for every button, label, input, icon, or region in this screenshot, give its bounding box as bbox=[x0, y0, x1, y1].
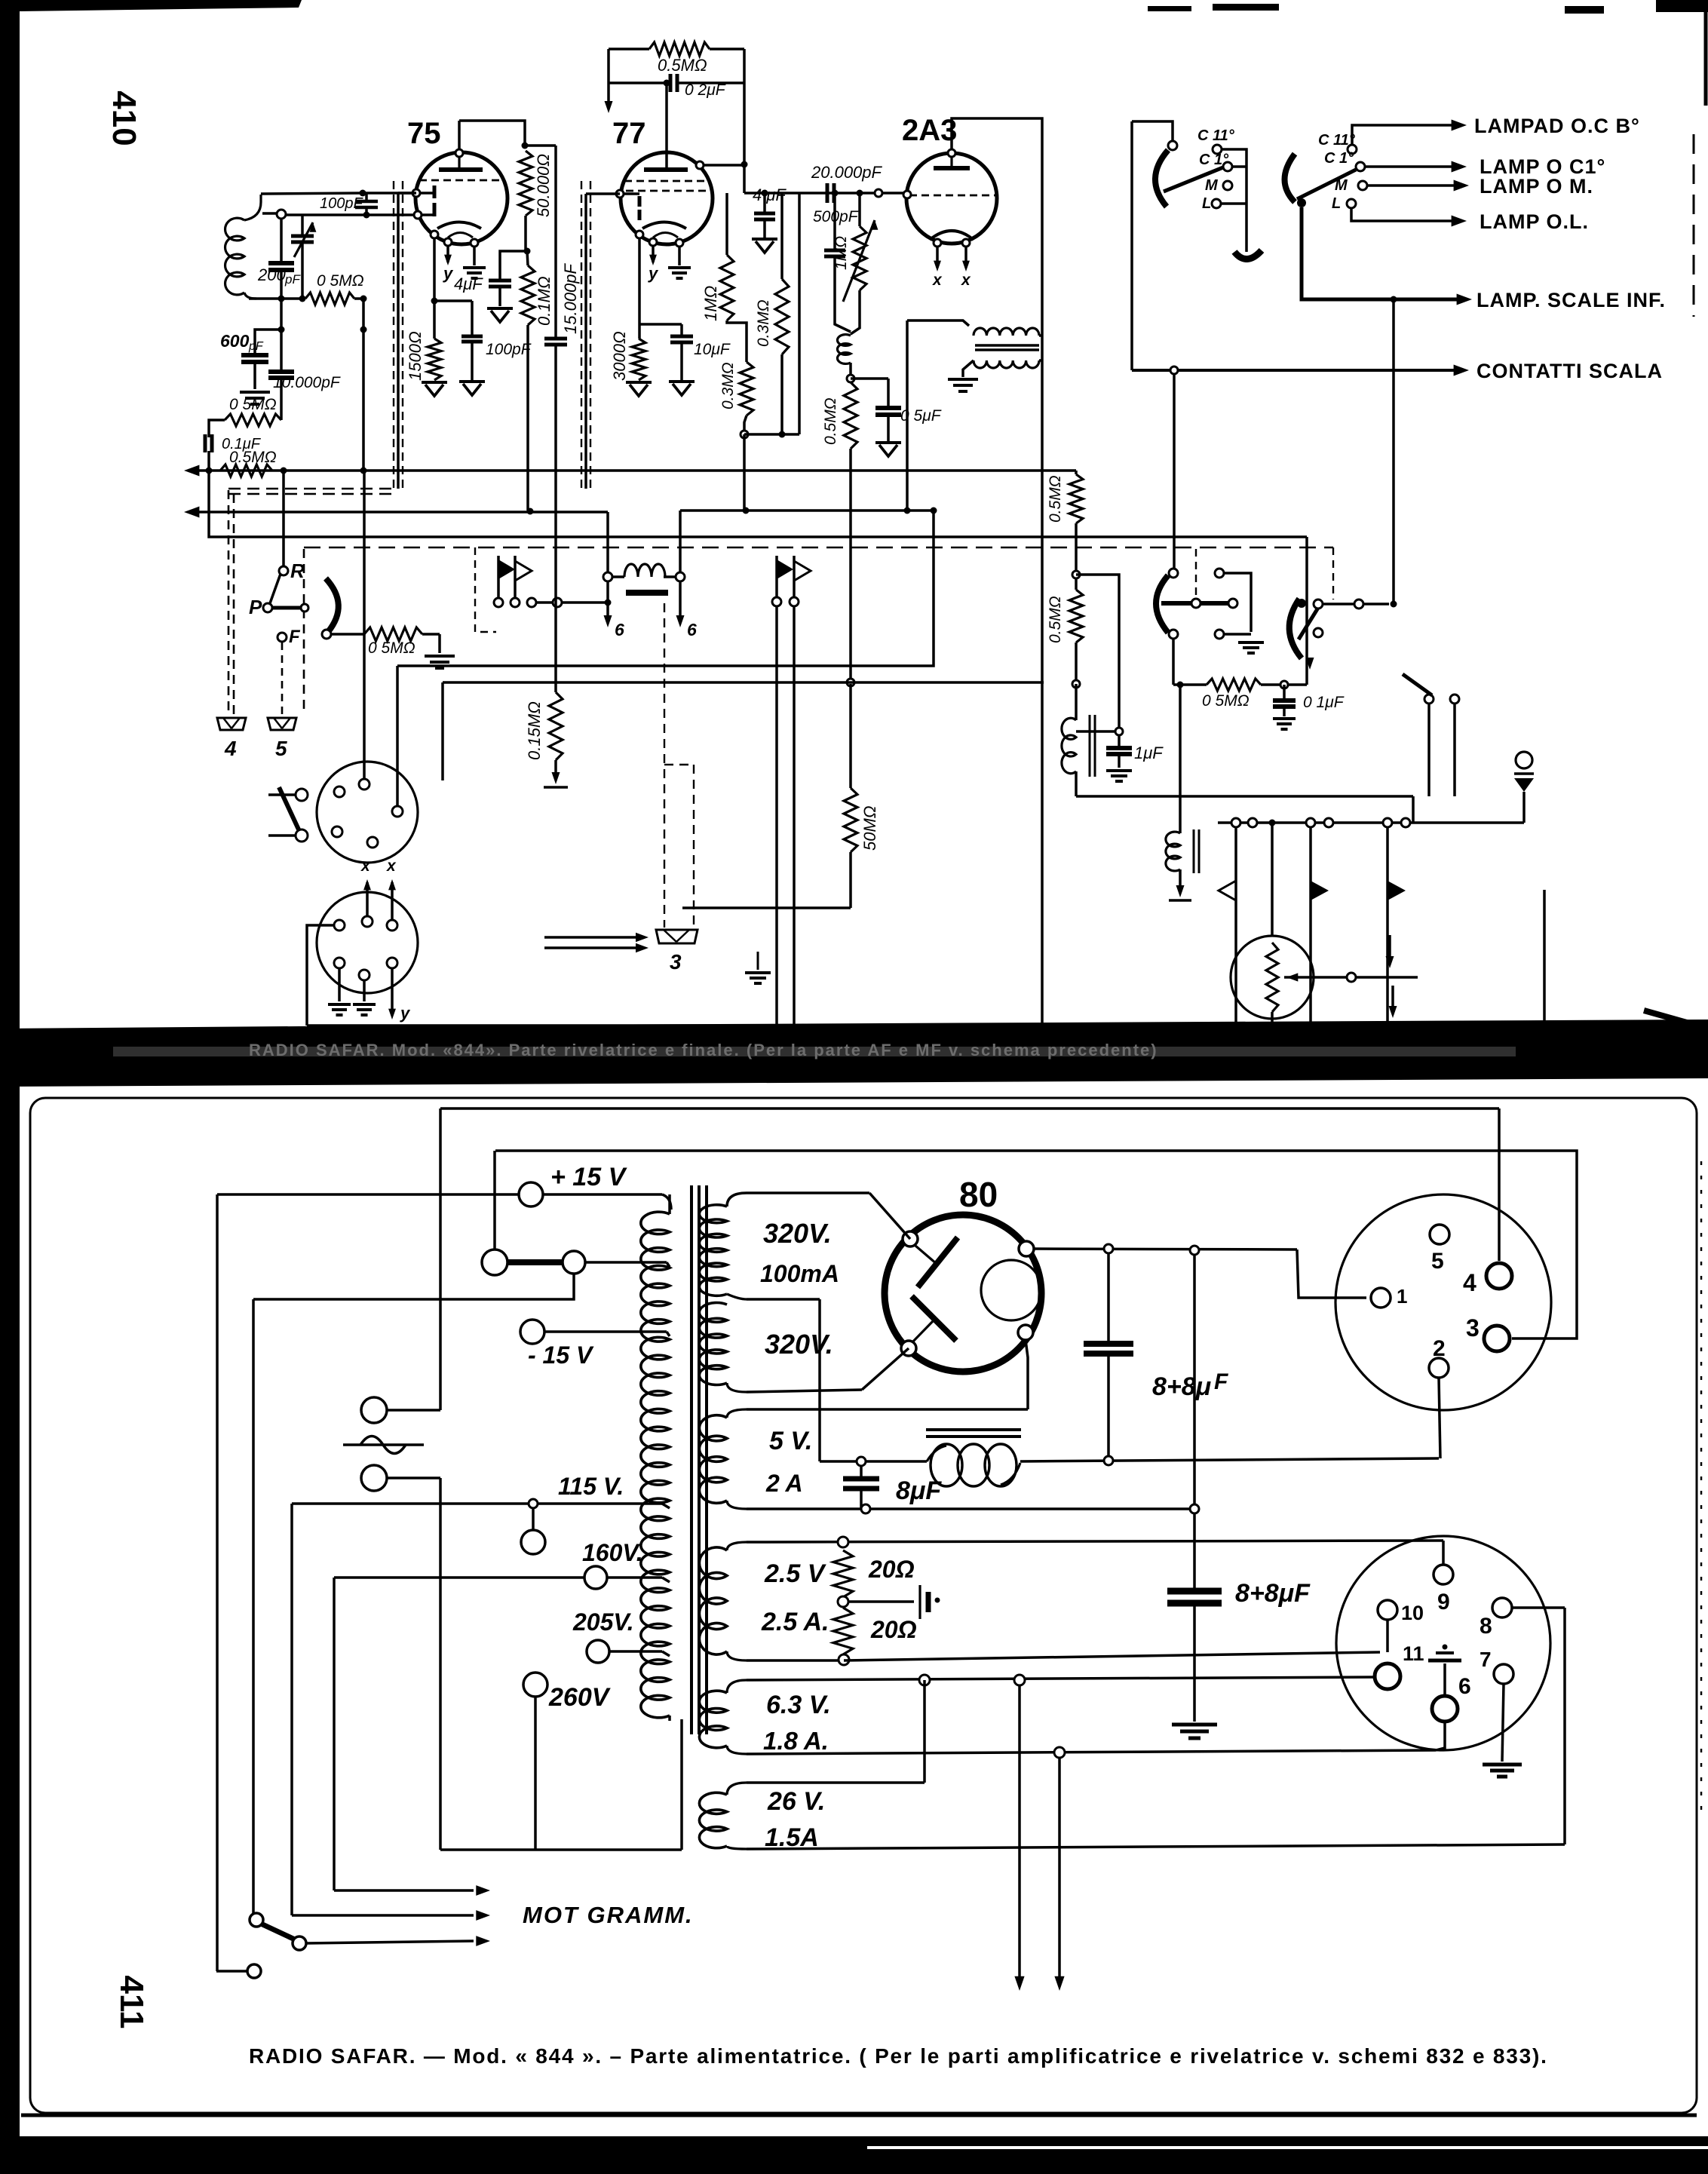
tube 2A3 plate bbox=[934, 166, 970, 170]
contatti line bbox=[1132, 369, 1459, 372]
dashed shield 75 bbox=[393, 181, 394, 490]
trimmer capacitor bbox=[301, 216, 304, 235]
bus line 2 right bbox=[680, 509, 934, 512]
lamp line 3 bbox=[1367, 184, 1458, 187]
tube 80 envelope bbox=[885, 1215, 1041, 1372]
capacitor 8uF bbox=[860, 1466, 863, 1478]
flags right B bbox=[1309, 827, 1312, 1026]
socket A switch bbox=[296, 789, 308, 801]
wire 160V bbox=[334, 1576, 584, 1579]
terminal 260V bbox=[523, 1673, 547, 1697]
svg-text:4μF: 4μF bbox=[454, 274, 483, 293]
wire 75 cathode bbox=[433, 238, 436, 301]
wire tuned row bbox=[249, 297, 305, 300]
resistor 0.5M r1 bbox=[1075, 471, 1078, 474]
tube 77 heater y bbox=[652, 246, 655, 262]
resistor 20ohm upper bbox=[838, 1537, 848, 1547]
wire line A bbox=[440, 1107, 1499, 1110]
wire coil tap bbox=[262, 212, 278, 215]
pin 6 chassis bbox=[1443, 1663, 1446, 1696]
svg-text:200: 200 bbox=[257, 265, 286, 284]
wire line B bbox=[495, 1151, 1577, 1338]
resistor 0.15M bbox=[554, 537, 557, 692]
tube 80 plate 1 bbox=[918, 1237, 958, 1287]
dashed drop right bbox=[1332, 547, 1334, 599]
terminal 3 bbox=[656, 930, 698, 943]
svg-text:10μF: 10μF bbox=[694, 341, 731, 358]
tube 77 screen dash bbox=[624, 180, 709, 182]
page edge top marks bbox=[1148, 6, 1191, 11]
svg-text:20Ω: 20Ω bbox=[868, 1556, 915, 1583]
dashed link switch bbox=[1195, 549, 1197, 599]
capacitor 0.1uF det bbox=[204, 434, 207, 452]
tube 75 cathode bbox=[437, 222, 481, 229]
svg-text:100mA: 100mA bbox=[760, 1260, 839, 1287]
svg-text:0.15MΩ: 0.15MΩ bbox=[525, 701, 544, 760]
svg-text:y: y bbox=[400, 1004, 411, 1023]
pot arc bbox=[326, 578, 339, 632]
page edge top left bbox=[20, 0, 302, 11]
capacitor 8+8 first bbox=[1107, 1253, 1110, 1342]
wire diode row upper bbox=[363, 192, 416, 195]
dashed link upper bbox=[228, 488, 397, 490]
resistor 0.5M r2 bbox=[1069, 590, 1083, 642]
svg-text:6: 6 bbox=[615, 620, 624, 639]
capacitor 10.000pF bbox=[280, 299, 283, 371]
svg-text:0 1μF: 0 1μF bbox=[1303, 694, 1345, 711]
secondary 5V bbox=[727, 1409, 747, 1418]
capacitor 10uF bbox=[680, 324, 683, 336]
wire pin4 drop bbox=[1498, 1108, 1501, 1261]
wire bundle v2 bbox=[252, 1299, 255, 1914]
svg-text:411: 411 bbox=[113, 1976, 150, 2029]
svg-text:LAMP O.L.: LAMP O.L. bbox=[1480, 210, 1589, 233]
capacitor 20.000pF bbox=[826, 183, 829, 203]
svg-text:+ 15 V: + 15 V bbox=[550, 1163, 628, 1191]
socket B x arrows bbox=[366, 882, 369, 916]
arrows to t3 bbox=[544, 936, 639, 939]
wire 77 cathode bbox=[638, 238, 641, 339]
transformer primary bbox=[641, 1212, 670, 1718]
svg-text:2.5 A.: 2.5 A. bbox=[761, 1608, 829, 1636]
resistor 0.5M ant bbox=[305, 293, 354, 305]
wire down arrow 1 bbox=[1018, 1685, 1021, 1977]
svg-text:3000Ω: 3000Ω bbox=[610, 331, 629, 381]
capacitor 8+8 second bbox=[1193, 1255, 1196, 1590]
AC symbol bbox=[343, 1443, 424, 1446]
svg-text:100pF: 100pF bbox=[486, 341, 532, 358]
capacitor 200pF bbox=[280, 218, 283, 262]
svg-text:7: 7 bbox=[1480, 1648, 1492, 1671]
wire y1056 bbox=[1076, 795, 1413, 798]
arrow out up bbox=[1388, 935, 1391, 959]
terminal 115V bbox=[532, 1508, 535, 1529]
capacitor 100pF grid bbox=[365, 193, 368, 201]
wire plug bottom down bbox=[439, 1478, 442, 1850]
wire y905 bbox=[443, 681, 1044, 684]
page edge right dash bbox=[1693, 134, 1695, 317]
resistor 50.000 bbox=[519, 151, 532, 216]
resistor 0.5M bus bbox=[220, 465, 272, 477]
pin 2 bbox=[1429, 1358, 1449, 1378]
transformer output core bbox=[975, 344, 1039, 347]
svg-text:P: P bbox=[249, 596, 262, 618]
tube 75 heater gnd bbox=[473, 247, 476, 265]
svg-text:0.5MΩ: 0.5MΩ bbox=[1047, 596, 1064, 643]
secondary 2.5V bbox=[727, 1542, 747, 1550]
svg-text:pF: pF bbox=[284, 272, 301, 287]
transformer core bbox=[690, 1185, 693, 1734]
svg-text:LAMPAD O.C B°: LAMPAD O.C B° bbox=[1474, 115, 1640, 137]
arrow mot 2 bbox=[292, 1914, 474, 1917]
wire bundle v3 bbox=[290, 1504, 293, 1915]
transformer output secondary bbox=[974, 360, 1039, 368]
terminal +15V bbox=[519, 1182, 543, 1207]
wire 50M chain bbox=[844, 788, 857, 852]
resistor 0.5M pot bbox=[331, 633, 364, 636]
switch mid 2 bbox=[1289, 599, 1302, 658]
svg-text:1500Ω: 1500Ω bbox=[406, 331, 425, 381]
svg-text:320V.: 320V. bbox=[765, 1329, 833, 1360]
plug terminal bottom bbox=[361, 1465, 387, 1491]
svg-text:100pF: 100pF bbox=[320, 195, 363, 212]
wire down arrow 2 bbox=[1058, 1758, 1061, 1977]
capacitor 500pF bbox=[833, 193, 836, 250]
svg-text:8: 8 bbox=[1480, 1614, 1492, 1639]
svg-text:0 5MΩ: 0 5MΩ bbox=[368, 639, 416, 657]
resistor 20ohm lower bbox=[838, 1596, 848, 1607]
pin 3 bbox=[1484, 1326, 1510, 1351]
svg-text:3: 3 bbox=[670, 950, 682, 974]
field coil bbox=[603, 572, 612, 581]
pin 8 bbox=[1492, 1598, 1512, 1617]
wire diode row lower bbox=[281, 213, 418, 216]
svg-text:260V: 260V bbox=[548, 1683, 612, 1712]
svg-text:R: R bbox=[290, 560, 305, 582]
wire socket A right bbox=[396, 666, 399, 806]
wire 75 out bbox=[434, 299, 472, 302]
tube 80 pins bbox=[903, 1231, 918, 1246]
secondary 26V bbox=[727, 1783, 747, 1795]
bus line 1 AVC bbox=[193, 469, 1076, 472]
svg-text:0.5MΩ: 0.5MΩ bbox=[1047, 475, 1064, 523]
switch S0 bbox=[1132, 121, 1173, 141]
filter choke bbox=[926, 1428, 1021, 1431]
resistor 0.5M fb bbox=[609, 48, 649, 51]
svg-text:4: 4 bbox=[224, 737, 237, 760]
tube 77 envelope bbox=[621, 152, 713, 244]
svg-text:9: 9 bbox=[1437, 1590, 1450, 1614]
tube 77 screen lead bbox=[696, 161, 704, 169]
dashed shield 77 bbox=[581, 181, 582, 489]
bus line 2 bbox=[193, 511, 608, 514]
svg-text:CONTATTI SCALA: CONTATTI SCALA bbox=[1476, 360, 1663, 382]
dashed drop t4 bbox=[228, 490, 230, 716]
svg-text:0.3MΩ: 0.3MΩ bbox=[719, 362, 737, 409]
wire 4uF node riser bbox=[798, 193, 801, 434]
switch mid 1 bbox=[1169, 569, 1178, 578]
wire 75 grid drop bbox=[398, 192, 416, 195]
svg-text:M: M bbox=[1335, 177, 1348, 194]
svg-text:10: 10 bbox=[1401, 1602, 1424, 1624]
coil 2 right bbox=[1179, 685, 1182, 833]
terminal 5 bbox=[268, 718, 296, 730]
wire 6.3V bottom circle bbox=[1054, 1747, 1065, 1758]
tube 75 grid bbox=[433, 186, 437, 198]
capacitor 15.000pF bbox=[554, 146, 557, 338]
tube 2A3 grid dash bbox=[909, 195, 995, 197]
svg-text:50.000Ω: 50.000Ω bbox=[534, 154, 553, 217]
svg-text:1.8 A.: 1.8 A. bbox=[763, 1727, 829, 1755]
svg-text:11: 11 bbox=[1403, 1642, 1424, 1665]
tube 75 plate bbox=[439, 167, 483, 172]
svg-text:10.000pF: 10.000pF bbox=[273, 374, 341, 391]
resistor 0.1M bbox=[521, 265, 535, 325]
arrow out dn bbox=[1391, 986, 1394, 1009]
svg-text:75: 75 bbox=[407, 117, 441, 150]
svg-text:LAMP. SCALE INF.: LAMP. SCALE INF. bbox=[1476, 289, 1666, 311]
tube 75 envelope bbox=[416, 152, 507, 244]
dashed drop t5 bbox=[303, 549, 305, 715]
wire pin2 drop bbox=[1439, 1378, 1440, 1458]
svg-text:500pF: 500pF bbox=[813, 208, 859, 225]
wire fb right bbox=[743, 49, 746, 193]
flags right C bbox=[1386, 827, 1389, 1026]
tube 80 filament bbox=[981, 1260, 1041, 1320]
wire 320V to plate1 bbox=[869, 1193, 910, 1239]
socket 5pin bbox=[1335, 1194, 1551, 1410]
arrow mot 3 bbox=[306, 1941, 474, 1943]
switch S0 bus bbox=[1222, 149, 1247, 252]
svg-text:1: 1 bbox=[1397, 1285, 1407, 1308]
lamp scale line bbox=[1302, 207, 1467, 299]
svg-text:6.3 V.: 6.3 V. bbox=[766, 1691, 831, 1719]
svg-text:6: 6 bbox=[1458, 1674, 1471, 1699]
resistor 1M 77 bbox=[720, 255, 734, 320]
svg-text:320V.: 320V. bbox=[763, 1218, 832, 1249]
svg-text:y: y bbox=[648, 264, 659, 283]
svg-text:pF: pF bbox=[248, 340, 264, 353]
mains switch bbox=[250, 1913, 263, 1927]
transformer output primary bbox=[907, 320, 969, 326]
svg-text:3: 3 bbox=[1466, 1314, 1480, 1342]
transformer taps bbox=[667, 1262, 670, 1267]
terminal 205V bbox=[587, 1640, 609, 1663]
tube 77 heater gnd bbox=[678, 247, 681, 265]
svg-text:2: 2 bbox=[1433, 1336, 1446, 1361]
dashed drop t3 bbox=[664, 603, 665, 928]
svg-text:L: L bbox=[1202, 195, 1211, 212]
svg-text:0.5MΩ: 0.5MΩ bbox=[822, 397, 839, 445]
dashed link pickup bbox=[475, 547, 496, 632]
wire lamp-switch drop bbox=[1392, 299, 1395, 604]
IF coil bbox=[1075, 684, 1078, 720]
dashed link long bbox=[304, 547, 1333, 549]
socket B bbox=[317, 892, 418, 993]
capacitor 4uF cath bbox=[500, 251, 527, 280]
capacitor 0.2uF fb bbox=[609, 81, 670, 84]
wire 2.5V to pin10 bbox=[844, 1652, 1380, 1660]
wire field left bbox=[606, 512, 609, 572]
wire bundle v4 bbox=[333, 1578, 336, 1890]
plug terminal top bbox=[361, 1397, 387, 1423]
tube 2A3 fil arrows bbox=[936, 247, 939, 268]
svg-text:205V.: 205V. bbox=[572, 1608, 634, 1636]
arrow 6 right bbox=[679, 581, 682, 618]
wire branch 1uF bbox=[1076, 575, 1119, 728]
svg-text:L: L bbox=[1332, 195, 1341, 212]
svg-text:2.5 V: 2.5 V bbox=[764, 1559, 827, 1588]
capacitor 4uF 77 bbox=[763, 193, 766, 213]
svg-text:- 15 V: - 15 V bbox=[528, 1342, 594, 1369]
pickup flags 2 bbox=[775, 556, 778, 597]
wire 75 plate top bbox=[459, 121, 525, 146]
bottom band bbox=[0, 2136, 1708, 2174]
resistor 0.5M 2A3 bbox=[844, 382, 857, 449]
svg-text:C 11°: C 11° bbox=[1318, 132, 1356, 149]
svg-text:8+8μF: 8+8μF bbox=[1235, 1579, 1311, 1608]
switch S1 lamps bbox=[1297, 198, 1306, 207]
svg-text:160V.: 160V. bbox=[582, 1539, 643, 1566]
resistor 1M volume bbox=[853, 226, 866, 290]
wire 115V bbox=[292, 1502, 662, 1505]
socket B grounds bbox=[338, 968, 341, 1001]
dashed drop F bbox=[281, 642, 284, 715]
wire plate node bbox=[525, 144, 556, 147]
tube 2A3 envelope bbox=[906, 153, 997, 244]
volume pot bbox=[1231, 936, 1314, 1019]
wire bus3 drop bbox=[1305, 537, 1308, 685]
wire field right bbox=[679, 511, 682, 572]
svg-text:2A3: 2A3 bbox=[902, 114, 957, 147]
lamp line 1 bbox=[1352, 125, 1455, 145]
pot F terminal bbox=[278, 633, 287, 642]
svg-text:0.3MΩ: 0.3MΩ bbox=[755, 299, 772, 347]
svg-text:0 5MΩ: 0 5MΩ bbox=[229, 396, 277, 413]
terminal pair link bbox=[482, 1250, 507, 1275]
bottom rule bbox=[21, 2114, 1697, 2117]
wire contatti drop bbox=[1173, 370, 1176, 569]
switch small right bbox=[1424, 695, 1434, 704]
pin 7 ground bbox=[1502, 1684, 1504, 1762]
wire choke input bbox=[820, 1460, 927, 1463]
svg-text:0.1MΩ: 0.1MΩ bbox=[535, 276, 553, 326]
secondary 320V bbox=[699, 1205, 727, 1296]
svg-text:5 V.: 5 V. bbox=[769, 1427, 812, 1455]
capacitor 1uF bbox=[1076, 730, 1115, 733]
svg-text:15.000pF: 15.000pF bbox=[561, 262, 580, 334]
svg-text:600: 600 bbox=[220, 331, 250, 351]
band separator bbox=[0, 1020, 1708, 1087]
svg-text:8μF: 8μF bbox=[896, 1476, 942, 1505]
svg-text:x: x bbox=[932, 271, 943, 289]
svg-text:RADIO SAFAR. — Mod. « 844 ». –: RADIO SAFAR. — Mod. « 844 ». – Parte ali… bbox=[249, 2044, 1548, 2068]
svg-text:80: 80 bbox=[959, 1175, 998, 1214]
tube 77 grid bbox=[638, 196, 642, 207]
pin 11 bbox=[1375, 1663, 1400, 1689]
svg-text:8+8μ: 8+8μ bbox=[1152, 1372, 1212, 1401]
lamp line 4 bbox=[1351, 208, 1455, 221]
wire pin8 bbox=[1512, 1606, 1565, 1609]
svg-text:x: x bbox=[360, 857, 371, 875]
terminal -15V bbox=[520, 1320, 544, 1344]
svg-text:0 2μF: 0 2μF bbox=[685, 81, 726, 99]
svg-text:77: 77 bbox=[612, 117, 646, 150]
wire 77 grid drop bbox=[586, 192, 620, 195]
flags right A bbox=[1234, 827, 1237, 1026]
ground pot bbox=[438, 634, 441, 653]
svg-text:1MΩ: 1MΩ bbox=[701, 286, 720, 321]
svg-text:1μF: 1μF bbox=[1134, 744, 1164, 762]
arrow mot 1 bbox=[334, 1889, 474, 1892]
pin 9 bbox=[1434, 1565, 1453, 1584]
capacitor 600pF bbox=[255, 330, 281, 354]
wire fb left arrow bbox=[607, 49, 610, 102]
socket A bbox=[317, 762, 418, 863]
wire pair left bbox=[493, 1151, 496, 1250]
antenna coil L1 bbox=[244, 195, 261, 220]
tube 75 diode dash bbox=[419, 179, 504, 182]
capacitor 100pF cath bbox=[471, 301, 474, 336]
resistor 3000 bbox=[632, 339, 645, 380]
wire 2A3 plate bbox=[952, 118, 1042, 1026]
wire 26V riser bbox=[923, 1680, 926, 1783]
wire 320V to plate2 bbox=[862, 1348, 909, 1390]
phone jack bbox=[1516, 752, 1532, 768]
svg-text:0 5MΩ: 0 5MΩ bbox=[1202, 692, 1250, 710]
wire det down bbox=[362, 299, 365, 330]
resistor 0.5M h bbox=[1173, 683, 1207, 686]
svg-text:y: y bbox=[443, 264, 454, 283]
svg-text:x: x bbox=[961, 271, 971, 289]
svg-text:5: 5 bbox=[1431, 1249, 1444, 1274]
resistor 0.3M b bbox=[775, 279, 789, 354]
svg-text:20Ω: 20Ω bbox=[870, 1616, 917, 1643]
wire y905 drop bbox=[441, 682, 444, 780]
pin 5 bbox=[1430, 1225, 1449, 1244]
pin 1 bbox=[1371, 1288, 1391, 1308]
svg-text:1MΩ: 1MΩ bbox=[833, 236, 850, 270]
svg-text:410: 410 bbox=[106, 90, 143, 146]
svg-text:20.000pF: 20.000pF bbox=[811, 163, 883, 182]
svg-text:2 A: 2 A bbox=[765, 1470, 803, 1497]
svg-text:C 1°: C 1° bbox=[1199, 152, 1229, 168]
svg-text:F: F bbox=[1214, 1369, 1228, 1394]
svg-text:50MΩ: 50MΩ bbox=[860, 805, 879, 851]
wire +15V bbox=[217, 1193, 519, 1196]
wire y1091 row bbox=[1218, 821, 1524, 824]
svg-text:MOT GRAMM.: MOT GRAMM. bbox=[523, 1902, 694, 1928]
tube 75 heater y bbox=[446, 246, 449, 262]
pot P terminal bbox=[263, 603, 272, 612]
resistor 0.3M a bbox=[740, 362, 753, 415]
svg-text:0.5MΩ: 0.5MΩ bbox=[658, 56, 707, 75]
resistor 1500 bbox=[428, 339, 441, 380]
wire primary feed bbox=[906, 320, 909, 511]
svg-text:5: 5 bbox=[275, 737, 287, 760]
svg-text:1.5A: 1.5A bbox=[765, 1823, 819, 1852]
bias cell bbox=[848, 1600, 914, 1603]
tube 2A3 filament bbox=[930, 231, 974, 240]
terminal 4 bbox=[217, 718, 246, 730]
svg-text:x: x bbox=[386, 857, 397, 875]
pin 7 bbox=[1494, 1664, 1513, 1684]
pickup flags mid bbox=[497, 556, 500, 598]
tube 77 plate bbox=[644, 167, 688, 172]
coil 2A3 cathode bbox=[837, 335, 851, 364]
svg-text:F: F bbox=[289, 627, 301, 647]
wire B+ line bbox=[1034, 1249, 1297, 1250]
